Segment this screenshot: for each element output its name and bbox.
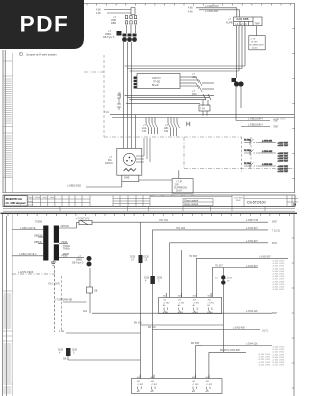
svg-text:PE08: PE08 (63, 253, 70, 256)
svg-text:7A 73A: 7A 73A (244, 149, 251, 152)
svg-text:4.80: 4.80 (188, 7, 193, 10)
svg-text:+T GNT1 F3: +T GNT1 F3 (76, 217, 90, 220)
svg-text:8N P08: 8N P08 (191, 342, 200, 345)
svg-text:304: 304 (207, 296, 210, 298)
svg-text:404: 404 (83, 310, 88, 313)
svg-text:J7/E08: J7/E08 (35, 220, 43, 223)
svg-text:DB-Type 5: DB-Type 5 (72, 262, 84, 265)
svg-text:DME: DME (124, 177, 130, 180)
svg-text:a b c: a b c (181, 195, 185, 197)
svg-text:DB: DB (63, 358, 67, 361)
svg-text:+6.301 17041: +6.301 17041 (272, 289, 285, 291)
svg-text:a b c: a b c (151, 195, 155, 197)
svg-text:L-DH2-906: L-DH2-906 (233, 327, 245, 330)
svg-text:403: 403 (192, 377, 195, 379)
svg-text:DB-Type 5: DB-Type 5 (103, 36, 115, 39)
svg-text:+T JR2: +T JR2 (206, 384, 213, 386)
svg-text:4.80: 4.80 (188, 11, 193, 14)
svg-text:L-DH2-908: L-DH2-908 (228, 349, 240, 352)
svg-text:302: 302 (178, 296, 181, 298)
svg-text:+T JR2: +T JR2 (151, 384, 158, 386)
svg-text:+6.300 17030: +6.300 17030 (273, 119, 286, 121)
svg-text:DFC: DFC (192, 93, 197, 96)
svg-text:SCHINDLER: SCHINDLER (250, 45, 265, 47)
svg-text:+6.307 17037: +6.307 17037 (272, 365, 285, 367)
svg-text:CH - 6052 Hergiswil: CH - 6052 Hergiswil (6, 202, 26, 205)
svg-text:L-N512-GNYE: L-N512-GNYE (20, 227, 36, 230)
svg-text:+T JR2: +T JR2 (192, 384, 199, 386)
svg-text:5007: 5007 (272, 221, 278, 224)
svg-text:*: * (20, 52, 21, 56)
svg-text:ADC: ADC (192, 76, 197, 79)
svg-text:L-CAN1-B07: L-CAN1-B07 (205, 10, 219, 13)
svg-text:TMP: TMP (255, 23, 260, 26)
svg-text:+T JR2: +T JR2 (137, 384, 144, 386)
svg-text:301: 301 (163, 296, 166, 298)
svg-text:L-DH3-901: L-DH3-901 (262, 140, 273, 142)
svg-text:7N1 302: 7N1 302 (176, 227, 186, 230)
svg-text:KUPB: KUPB (226, 22, 233, 25)
svg-text:a b c: a b c (191, 195, 195, 197)
svg-text:DBR/26: DBR/26 (34, 235, 43, 238)
svg-text:L-DH5-903: L-DH5-903 (262, 164, 273, 166)
svg-text:+6.304 17034: +6.304 17034 (258, 364, 271, 366)
svg-text:+6.301 7037: +6.301 7037 (278, 145, 289, 147)
svg-text:PDF: PDF (20, 12, 70, 37)
svg-text:30-87: 30-87 (176, 190, 183, 193)
svg-text:Ander: Ander (28, 200, 33, 203)
svg-text:L-DH2-907: L-DH2-907 (246, 240, 258, 243)
svg-text:DBR: DBR (111, 22, 116, 25)
svg-text:+T JR1: +T JR1 (163, 302, 170, 304)
svg-text:F30: F30 (164, 130, 169, 133)
svg-text:+T JR1: +T JR1 (207, 302, 214, 304)
svg-text:CAN DRB: CAN DRB (237, 18, 249, 21)
svg-text:7087: 7087 (273, 126, 279, 129)
svg-text:L-CAN2-H07: L-CAN2-H07 (205, 5, 219, 8)
svg-text:Datum: Datum (28, 196, 34, 199)
svg-text:a b c: a b c (171, 195, 175, 197)
svg-text:INVENTIO AG: INVENTIO AG (6, 197, 23, 201)
svg-text:8N 101: 8N 101 (134, 322, 142, 325)
svg-text:L-DH2-907: L-DH2-907 (246, 227, 258, 230)
svg-text:DM-DC: DM-DC (105, 162, 113, 165)
svg-text:Door control: Door control (185, 203, 199, 206)
svg-text:404: 404 (206, 377, 209, 379)
svg-text:L-DBD2/DB-4: L-DBD2/DB-4 (248, 124, 263, 127)
svg-text:DCB: DCB (227, 278, 232, 280)
svg-text:L-GNT1-PE06: L-GNT1-PE06 (18, 271, 34, 274)
svg-text:+T JR1: +T JR1 (193, 302, 200, 304)
svg-text:L1 L2 L3: L1 L2 L3 (236, 23, 248, 26)
svg-text:7N 307: 7N 307 (215, 265, 223, 268)
svg-text:5007: 5007 (272, 312, 278, 315)
svg-text:+6.302 7057: +6.302 7057 (278, 171, 289, 173)
svg-text:303: 303 (193, 296, 196, 298)
svg-text:L-DBD2-DB2: L-DBD2-DB2 (67, 185, 82, 188)
svg-text:8N 102: 8N 102 (148, 326, 156, 329)
svg-text:A2: A2 (206, 390, 208, 393)
svg-text:7A 73A: 7A 73A (244, 162, 251, 165)
svg-text:TN60x: TN60x (63, 248, 71, 251)
svg-text:L-DH2-907: L-DH2-907 (259, 256, 271, 259)
svg-text:Ander: Ander (28, 203, 33, 206)
svg-text:A2 A4: A2 A4 (193, 311, 198, 314)
svg-text:L-DRH-730: L-DRH-730 (246, 219, 259, 222)
svg-text:Norm: Norm (50, 197, 55, 199)
svg-text:L-DH4-902: L-DH4-902 (262, 151, 273, 153)
svg-text:L-DH4-116: L-DH4-116 (246, 343, 258, 346)
svg-text:30-60: 30-60 (252, 48, 258, 50)
svg-text:L-DH4-116: L-DH4-116 (246, 310, 258, 313)
svg-text:DB: DB (94, 290, 98, 293)
svg-text:A2 A4: A2 A4 (163, 311, 168, 314)
svg-text:PE06: PE06 (62, 241, 69, 244)
svg-text:Gepr: Gepr (43, 197, 47, 199)
svg-text:A2: A2 (137, 390, 139, 393)
svg-text:7N1 301: 7N1 301 (159, 219, 169, 222)
svg-text:+T JF: +T JF (250, 39, 256, 41)
svg-text:+6.303 7047: +6.303 7047 (278, 160, 289, 162)
svg-text:402: 402 (151, 377, 154, 379)
svg-text:4.80: 4.80 (96, 12, 101, 15)
svg-text:7.01: 7.01 (104, 111, 109, 114)
svg-text:Bearb: Bearb (35, 197, 40, 199)
svg-text:L-DBD2/DB-4: L-DBD2/DB-4 (248, 118, 263, 121)
svg-text:7N P03: 7N P03 (189, 255, 198, 258)
svg-text:Bimdlr: Bimdlr (152, 84, 159, 87)
svg-text:220V06: 220V06 (61, 225, 70, 228)
svg-text:+T JR1: +T JR1 (178, 302, 185, 304)
svg-text:39: 39 (293, 203, 297, 207)
svg-text:L-N512-GNYE 2: L-N512-GNYE 2 (19, 253, 37, 256)
svg-text:a b c: a b c (161, 195, 165, 197)
svg-text:CS-5T2/100: CS-5T2/100 (247, 200, 266, 204)
svg-text:A2 A4: A2 A4 (207, 311, 212, 314)
svg-text:+T DB/DRM-DB: +T DB/DRM-DB (55, 299, 72, 302)
svg-text:DBR(2): DBR(2) (34, 241, 42, 244)
svg-text:A2: A2 (192, 390, 194, 393)
svg-text:1 Pa: 1 Pa (59, 330, 65, 333)
svg-text:A2 A4: A2 A4 (178, 311, 183, 314)
svg-text:7.12.91: 7.12.91 (272, 230, 281, 233)
svg-text:A2: A2 (151, 390, 153, 393)
svg-text:GL71: GL71 (262, 330, 269, 333)
svg-text:7A 73A: 7A 73A (244, 139, 251, 142)
svg-text:401: 401 (137, 377, 140, 379)
svg-text:F30: F30 (142, 130, 147, 133)
svg-text:7.04: 7.04 (200, 108, 205, 111)
svg-text:6071: 6071 (272, 242, 278, 245)
svg-text:L-DH2-907: L-DH2-907 (246, 265, 258, 268)
svg-text:Jumper at H wire system: Jumper at H wire system (26, 53, 57, 57)
svg-text:(76.1 GNT): (76.1 GNT) (48, 283, 60, 286)
svg-text:JF JFF: JF JFF (251, 42, 258, 44)
